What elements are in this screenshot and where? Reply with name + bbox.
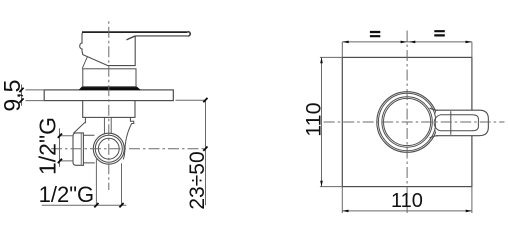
- dim 23÷50 extension from plate bottom: [176, 99, 206, 101]
- body neck left: [74, 117, 86, 133]
- lever junction curve: [127, 36, 136, 40]
- dim 9,5 ticks: [19, 88, 23, 103]
- handle body (side): [80, 32, 135, 66]
- body neck right with flange: [123, 117, 134, 159]
- lever joint line: [450, 111, 452, 135]
- centerline vertical (front): [406, 31, 408, 214]
- dim 23÷50 ticks: [203, 98, 207, 151]
- rosette inner circle: [378, 93, 435, 150]
- centerline horizontal (side view ports): [51, 148, 205, 150]
- lever grip outline: [436, 110, 488, 136]
- left 110 dim line: [321, 57, 323, 186]
- cartridge collar: [83, 69, 136, 87]
- svg-text:1/2"G: 1/2"G: [39, 182, 95, 207]
- cartridge stem lines: [104, 117, 111, 136]
- side port flange: [73, 133, 83, 165]
- top equal-split dim extension lines: [342, 42, 472, 58]
- svg-text:1/2"G: 1/2"G: [34, 117, 60, 175]
- dim 9,5 line: [21, 85, 23, 106]
- lever rounded tip: [188, 31, 191, 36]
- bottom 110 dim extension lines: [342, 187, 472, 213]
- threaded adapter below plate: [83, 101, 135, 118]
- outlet circle outer: [93, 133, 124, 164]
- handle dome outer circle: [382, 97, 432, 147]
- lever bottom flare: [430, 136, 439, 138]
- square wall plate (front): [342, 57, 472, 186]
- dim 9,5 extension lines: [26, 90, 45, 101]
- handle dome inner circle: [384, 98, 431, 145]
- dim side-port ticks: [58, 134, 62, 164]
- lever inner stadium: [434, 115, 478, 131]
- bottom 110 dim line: [342, 210, 472, 212]
- side port chamfer line: [80, 133, 82, 165]
- svg-text:9,5: 9,5: [0, 80, 25, 112]
- lever (side): top line thick: [82, 31, 188, 33]
- bottom 110 dim arrows: [342, 210, 348, 213]
- rosette outer circle: [377, 92, 438, 153]
- top equal-split dim line: [342, 41, 472, 43]
- centerline horizontal (front): [324, 121, 505, 123]
- svg-text:110: 110: [302, 102, 326, 136]
- dim bottom-port ticks: [94, 203, 123, 207]
- left 110 dim arrows: [320, 57, 323, 63]
- outlet circle inner: [98, 138, 119, 159]
- handle skirt silhouette edge: [82, 57, 87, 69]
- dim bottom-port extension lines: [96, 159, 121, 206]
- side port tube walls: [83, 135, 94, 163]
- lever grip (front) white body: [436, 110, 488, 136]
- equals symbol right: [434, 31, 445, 35]
- centerline vertical (side view): [108, 21, 110, 190]
- svg-text:23÷50: 23÷50: [186, 151, 209, 209]
- lever top flare: [430, 108, 439, 110]
- top dim arrows: [342, 41, 348, 44]
- outlet circle middle: [95, 135, 122, 162]
- dim 23÷50 line: [205, 100, 207, 205]
- dim bottom-port line: [42, 204, 127, 206]
- wall plate (side): [44, 90, 173, 101]
- left 110 dim extension lines: [320, 57, 342, 186]
- lever underside: [135, 35, 187, 37]
- svg-text:110: 110: [391, 190, 423, 212]
- lever tip inner line: [188, 33, 190, 36]
- dim side-port extension lines: [60, 136, 74, 161]
- equals symbol left: [370, 32, 380, 36]
- dim side-port line: [59, 128, 61, 166]
- O-ring seal (black): [79, 87, 141, 91]
